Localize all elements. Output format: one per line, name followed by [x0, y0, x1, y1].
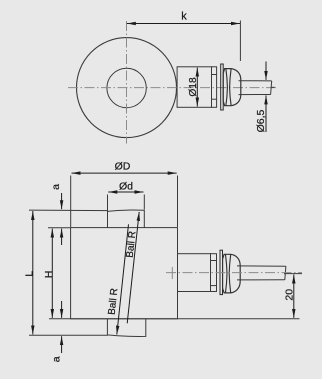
- dimension k: [127, 23, 240, 25]
- k extension line right: [239, 21, 241, 62]
- hex nut with dome cap: [223, 69, 241, 106]
- dimension a top upper arrow: [61, 193, 63, 209]
- dimension H: [51, 229, 53, 318]
- axis cross tick: [171, 267, 173, 279]
- nut face line right: [230, 69, 232, 106]
- svg-text:ØD: ØD: [115, 161, 131, 173]
- front nut face line right: [229, 255, 231, 293]
- svg-text:k: k: [181, 11, 187, 23]
- front gland washer: [220, 250, 223, 294]
- front hex nut with dome cap: [223, 254, 241, 293]
- dimension 20: [293, 275, 295, 318]
- flange step lines: [212, 74, 217, 76]
- front nut face line left: [226, 255, 228, 293]
- dimension OD: [72, 172, 177, 174]
- svg-text:Ø18: Ø18: [188, 77, 199, 97]
- front flange step lines: [211, 260, 217, 262]
- svg-text:a: a: [50, 184, 62, 190]
- dimension a bottom upper arrow: [61, 301, 63, 318]
- OD extension left: [70, 176, 72, 228]
- horizontal centerline: [68, 87, 277, 89]
- dimension a bottom lower arrow: [61, 336, 63, 353]
- front cable top line: [237, 265, 286, 267]
- outer circle body: [77, 38, 177, 138]
- top boss (ball surface): [108, 210, 145, 228]
- gland washer: [221, 64, 224, 110]
- dimension Od: [108, 191, 143, 193]
- body rectangle: [71, 228, 178, 319]
- Od extension left: [107, 195, 109, 211]
- leader Ball R bottom: [117, 224, 129, 334]
- dimension L: [32, 211, 34, 334]
- front cable break end: [285, 266, 286, 280]
- front cable bottom line: [237, 279, 285, 281]
- dimension O6,5 lower: [265, 95, 267, 132]
- svg-text:a: a: [51, 356, 63, 362]
- svg-text:Ød: Ød: [119, 181, 133, 193]
- cable break end: [271, 81, 275, 95]
- leader Ball R top: [127, 212, 139, 323]
- svg-text:Ø6,5: Ø6,5: [255, 109, 267, 132]
- front view connector stub: [178, 254, 211, 292]
- bottom boss (ball surface): [107, 319, 145, 337]
- svg-text:H: H: [43, 271, 55, 279]
- dimension O6,5 upper: [265, 62, 267, 80]
- axis extension solid: [284, 273, 302, 275]
- svg-text:20: 20: [284, 289, 296, 301]
- gland flange: [212, 67, 217, 108]
- cable bottom line: [239, 94, 271, 96]
- inner circle (boss Od): [107, 68, 146, 107]
- body top extension line: [48, 227, 71, 229]
- front view axis centerline: [166, 272, 302, 274]
- cable top line: [239, 80, 272, 82]
- OD extension right: [177, 176, 179, 228]
- boss top extension line: [29, 209, 108, 212]
- boss bottom extension line: [29, 334, 108, 336]
- body bottom extension line (extends right for dim 20): [49, 318, 300, 320]
- connector stub O18: [177, 67, 211, 108]
- vertical centerline: [126, 21, 128, 144]
- svg-text:Ball R: Ball R: [107, 288, 121, 316]
- nut face line left: [226, 69, 228, 106]
- Od extension right: [143, 195, 145, 210]
- dimension a top lower arrow: [61, 229, 63, 245]
- dimension O18: [196, 68, 198, 107]
- svg-text:L: L: [23, 271, 35, 277]
- front gland flange: [211, 254, 217, 292]
